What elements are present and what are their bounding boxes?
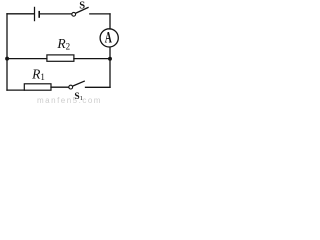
svg-text:A: A — [105, 28, 113, 46]
wire right vertical lower — [109, 47, 111, 87]
wire middle right — [74, 58, 110, 60]
wire right vertical upper — [109, 14, 111, 29]
wire R1 to S1 — [51, 86, 69, 88]
svg-text:R2: R2 — [56, 36, 70, 52]
switch S1 — [69, 81, 84, 89]
wire switch to top-right corner — [90, 13, 110, 15]
wire middle left — [7, 58, 47, 60]
wire top-left horizontal — [7, 13, 34, 15]
ammeter A — [100, 28, 118, 47]
resistor R2 — [47, 55, 74, 61]
wire S1 to bottom-right corner — [86, 86, 111, 88]
wire left vertical — [6, 14, 8, 90]
svg-text:R1: R1 — [31, 66, 45, 82]
wire battery to switch — [40, 13, 72, 15]
wire bottom-left — [7, 89, 24, 91]
node junction left — [5, 57, 9, 61]
resistor R1 — [24, 84, 51, 90]
svg-text:S: S — [79, 1, 85, 12]
battery cell — [35, 7, 41, 20]
switch S — [72, 8, 88, 17]
node junction right — [108, 57, 112, 61]
